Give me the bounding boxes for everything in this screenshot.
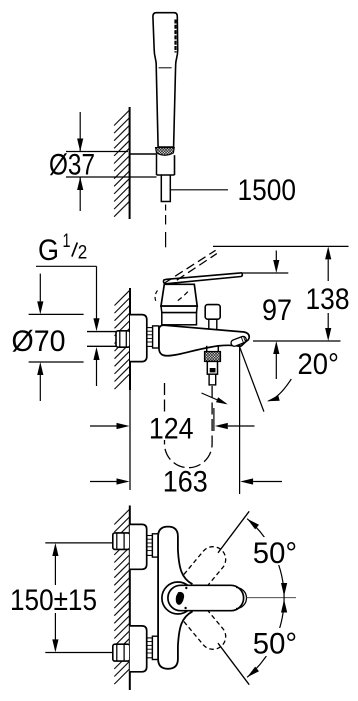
50° lower swing line bbox=[218, 643, 249, 685]
vertical extension line at spout tip bbox=[239, 344, 241, 494]
bottom supply: extension line bbox=[45, 652, 113, 654]
dimension Ø70 (flange) bbox=[29, 313, 84, 315]
dimension 1500 (hose length leader) bbox=[171, 189, 228, 191]
lever end inner arc bbox=[236, 588, 247, 609]
wall (top section, hatched, face line) bbox=[114, 110, 130, 217]
shower head spray strip bbox=[174, 20, 176, 53]
wall (middle section) bbox=[115, 290, 131, 389]
lever rotated +50° (dashed) bbox=[184, 547, 226, 591]
hose nipple below holder bbox=[161, 175, 170, 202]
svg-text:163: 163 bbox=[163, 466, 208, 499]
dashed arc under raised lever bbox=[178, 290, 190, 301]
top threaded union bbox=[147, 536, 152, 556]
svg-text:Ø70: Ø70 bbox=[12, 325, 66, 358]
threaded union bbox=[147, 328, 153, 347]
top supply: extension line bbox=[45, 542, 113, 544]
shower hose (dashed U) bbox=[165, 383, 213, 468]
supply pipe through wall bbox=[87, 331, 117, 333]
lower 50° angle arc bbox=[247, 598, 284, 677]
lever base circle bbox=[162, 582, 194, 614]
lever handle (front view capsule) bbox=[168, 585, 244, 610]
svg-text:1: 1 bbox=[63, 230, 71, 252]
svg-text:20°: 20° bbox=[298, 348, 340, 381]
lower arc arrow at 50° line bbox=[247, 667, 259, 678]
shower outlet stem bbox=[206, 346, 208, 352]
svg-text:G: G bbox=[38, 234, 59, 267]
swivel arc arrow bbox=[202, 393, 226, 404]
hand shower head and handle bbox=[153, 13, 178, 147]
20° leader arc with arrow bbox=[269, 379, 292, 401]
dimension 97 bbox=[242, 272, 288, 274]
lower arc arrow at centerline bbox=[281, 600, 287, 613]
logo mark on lever bbox=[176, 592, 184, 604]
lever handle (side view) bbox=[163, 273, 242, 284]
supply nut bbox=[116, 331, 130, 347]
bottom escutcheon flange bbox=[130, 626, 147, 672]
bottom supply nut bbox=[113, 644, 130, 661]
svg-text:124: 124 bbox=[149, 412, 194, 445]
dimension 150±15 bbox=[54, 546, 56, 585]
holder cup (knurled) bbox=[156, 148, 175, 156]
top escutcheon flange bbox=[130, 524, 147, 569]
bottom threaded union bbox=[147, 638, 152, 658]
svg-text:2: 2 bbox=[78, 242, 88, 264]
svg-text:97: 97 bbox=[262, 294, 292, 327]
aerator / mousseur (20° outlet) bbox=[230, 335, 247, 347]
svg-text:50°: 50° bbox=[253, 537, 297, 570]
escutcheon flange (side view, Ø70) bbox=[130, 315, 147, 362]
cartridge base band bbox=[162, 313, 197, 325]
cartridge ring bbox=[161, 306, 197, 313]
upper 50° angle arc bbox=[247, 519, 284, 598]
dimension 163 bbox=[90, 481, 117, 483]
extension line (wall face, down to 124/163 dims) bbox=[129, 390, 131, 490]
50° upper swing line bbox=[218, 511, 249, 553]
knurled coupling nut bbox=[205, 352, 221, 362]
outlet cylinder bbox=[207, 361, 217, 374]
hose nipple bbox=[209, 374, 216, 385]
svg-text:150±15: 150±15 bbox=[10, 584, 97, 617]
dashed arc left of dome bbox=[155, 291, 157, 303]
20° outlet axis line bbox=[239, 346, 264, 411]
svg-text:1500: 1500 bbox=[238, 174, 297, 207]
handle seam line bbox=[159, 67, 172, 69]
cartridge dome bbox=[161, 284, 197, 306]
bottom extension line (spout outlet level) bbox=[253, 340, 341, 342]
diverter knob on spout bbox=[205, 305, 220, 320]
top supply nut bbox=[113, 533, 130, 550]
wall (bottom section) bbox=[114, 509, 130, 684]
dimension 138 bbox=[213, 245, 349, 247]
upper arc arrow at 50° line bbox=[247, 519, 259, 530]
lever raised position (dashed) bbox=[164, 250, 216, 283]
svg-text:Ø37: Ø37 bbox=[49, 149, 95, 182]
dimension 124 bbox=[90, 425, 117, 427]
dimension Ø37 (holder) bbox=[66, 151, 128, 153]
hose dashed centerline bbox=[165, 205, 167, 211]
wall holder bracket bbox=[129, 153, 157, 155]
svg-text:138: 138 bbox=[306, 283, 350, 316]
centerline bbox=[246, 597, 296, 599]
svg-text:50°: 50° bbox=[253, 628, 297, 661]
faucet body (front view, capsule) bbox=[158, 527, 192, 669]
upper arc arrow at centerline bbox=[281, 583, 287, 596]
lever rotated -50° (dashed) bbox=[184, 605, 226, 649]
G1/2 lower arrow bbox=[93, 347, 99, 360]
faucet body with spout (side view) bbox=[159, 325, 249, 356]
